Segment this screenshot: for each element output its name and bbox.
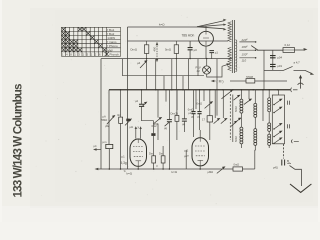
capacitor near bus x141.5 <box>139 104 144 106</box>
svg-text:µ0: µ0 <box>194 48 198 52</box>
capacitor um (box on x109) <box>106 144 113 148</box>
switch arm mains <box>283 66 293 70</box>
resistor 5m (on y41) <box>174 41 178 90</box>
wire: vertical x164 <box>163 76 165 90</box>
table crosshatch cells <box>62 27 66 31</box>
dashed gang line right <box>283 144 285 159</box>
arrowhead mains out <box>304 48 308 51</box>
svg-text:DmΩ: DmΩ <box>131 48 137 52</box>
wire: vertical x198 <box>197 59 199 76</box>
svg-text:400: 400 <box>153 46 157 51</box>
coil L2 lower <box>254 129 257 146</box>
svg-text:µ04: µ04 <box>277 55 282 59</box>
junction dots on bus <box>120 89 279 91</box>
pot lower coils <box>235 119 241 123</box>
wire: vertical x122.4 <box>121 59 123 76</box>
transformer secondary winding <box>235 40 236 72</box>
wire: vertical x204 mid drop <box>203 90 205 101</box>
wire: vertical x186.2 <box>185 150 187 169</box>
wire: vertical x217 drop <box>216 90 218 116</box>
paper speckles <box>36 15 309 204</box>
svg-text:180º: 180º <box>242 45 249 49</box>
wire: vertical x155.7 <box>155 59 157 90</box>
wire: x120.6 leads <box>120 90 122 169</box>
wire: to earth <box>290 166 302 187</box>
wire: output stage line y41 <box>128 40 229 42</box>
coil L3 mid <box>268 123 271 131</box>
wire: speaker fan line 1 <box>197 21 225 27</box>
junction dots heater line <box>146 58 207 59</box>
capacitor pair x199.5 <box>197 112 201 114</box>
svg-text:Dm: Dm <box>149 152 153 156</box>
wire: L3 leads <box>268 90 270 148</box>
wire: M line continues <box>230 80 246 82</box>
svg-text:0mΩ: 0mΩ <box>197 102 203 106</box>
wire: vertical x146.6 below heater <box>146 59 148 90</box>
wire: x215.2 x223.3 drops <box>215 90 223 118</box>
capacitor u1 at tube <box>209 51 214 53</box>
resistor 5708 <box>246 79 255 83</box>
table frame <box>62 27 121 56</box>
svg-text:133 W/143 W Columbus: 133 W/143 W Columbus <box>11 84 24 198</box>
switch arm 1 <box>274 100 281 105</box>
wire: bus left drop x109 <box>108 90 110 145</box>
wire: mains switch line <box>264 69 283 71</box>
wire: line y75.7 <box>122 75 204 77</box>
arrowhead speaker 3 <box>223 28 226 30</box>
resistor 0m (x120.6) <box>119 117 123 123</box>
svg-text:5002: 5002 <box>234 106 238 112</box>
antenna symbol <box>298 78 304 89</box>
svg-text:µ X: µ X <box>135 125 139 129</box>
svg-text:µ4: µ4 <box>137 61 141 65</box>
wire: vertical x171.8 <box>171 59 173 90</box>
dial lamp P <box>203 66 211 74</box>
wire: main chassis bus <box>109 89 290 91</box>
wire: vertical x183 <box>182 76 184 90</box>
svg-text:µ50: µ50 <box>154 122 159 126</box>
switch box small x207-212.5 <box>207 116 212 122</box>
capacitor u04 <box>270 56 276 58</box>
arrowhead mains switch out <box>310 72 314 75</box>
trimmer top coils <box>234 96 240 100</box>
svg-text:µ01: µ01 <box>277 64 282 68</box>
capacitor B trim <box>282 160 285 166</box>
wire: V2 top lead <box>199 130 201 138</box>
coil L2 upper <box>254 103 257 117</box>
switch arm 3 <box>274 124 281 129</box>
svg-text:5,3g: 5,3g <box>121 161 127 165</box>
wire: x177 leads <box>176 90 178 140</box>
capacitor u01 <box>270 64 276 66</box>
switch arm voltage selector <box>251 46 258 51</box>
svg-text:µΩ: µΩ <box>185 149 189 153</box>
rectifier tube U4 <box>199 31 214 46</box>
capacitor x169.4 <box>167 120 172 122</box>
transformer primary winding upper <box>228 22 231 42</box>
wire: mains switch out <box>294 70 313 73</box>
wire: left corner vertical x101 <box>100 59 102 115</box>
resistor DMa right of V1 <box>152 156 156 163</box>
resistor Dm1 (x177) <box>175 116 179 122</box>
arrowhead speaker 1 <box>223 19 226 21</box>
pot 0m2 (x158) <box>154 118 161 124</box>
wire: L2 bottom to ground line <box>255 150 256 169</box>
coil L1 upper <box>240 99 243 113</box>
contact at B <box>288 162 291 165</box>
capacitor pair x193.5 <box>191 112 195 114</box>
table column lines <box>66 27 107 56</box>
svg-text:µΩ: µΩ <box>130 125 133 129</box>
tube V1 <box>130 139 147 166</box>
svg-text:µ1T: µ1T <box>184 154 189 158</box>
pot 0m upper right <box>205 102 212 108</box>
wire: x109 to bottom line <box>108 149 110 169</box>
wire: mains line out <box>295 49 306 51</box>
table row lines <box>62 31 121 52</box>
wire: DMb leads <box>162 146 164 169</box>
coil L3 upper <box>268 98 271 112</box>
svg-text:µm: µm <box>103 140 108 144</box>
wire: V2 bottom lead <box>199 166 201 169</box>
wire: V1 top leads with arrows <box>136 128 141 139</box>
svg-text:a 4,7: a 4,7 <box>294 60 301 64</box>
svg-text:5mΩ: 5mΩ <box>165 48 171 52</box>
pot right x230.5 <box>231 122 236 127</box>
wire: L1 leads <box>240 90 242 148</box>
bus end contact <box>290 88 293 92</box>
switch arm 5 <box>274 138 281 143</box>
svg-text:Dm: Dm <box>159 152 163 156</box>
wire: branch vertical x264 <box>263 50 265 89</box>
wire: x158 drop <box>157 90 159 140</box>
wire: x141.5 leads <box>142 90 154 156</box>
coil L3 lower <box>268 134 271 145</box>
svg-text:k=Ω: k=Ω <box>127 171 133 175</box>
svg-text:110: 110 <box>242 58 247 62</box>
wire: bracket vertical x232.8 <box>232 95 234 143</box>
switch arm 4 <box>274 132 281 137</box>
fuse Si 0,12 <box>283 48 295 53</box>
svg-text:0mΩ: 0mΩ <box>234 163 240 167</box>
capacitor u0 (on y41) <box>188 48 193 50</box>
wire: x101 lower <box>100 115 102 170</box>
svg-text:150º: 150º <box>242 52 249 56</box>
dashed gang line mid <box>229 94 231 140</box>
transformer primary winding lower <box>228 47 231 70</box>
svg-text:µA: µA <box>103 114 107 118</box>
wire: vertical x188.4 <box>187 59 189 90</box>
svg-text:k=Ω: k=Ω <box>159 23 165 27</box>
potentiometer 5M left <box>107 117 114 125</box>
wire: mains cap branch vertical <box>272 50 274 70</box>
wire: left frame vertical <box>127 27 129 169</box>
svg-text:78S AOn: 78S AOn <box>182 34 195 38</box>
tension element 400 (dial drive) <box>156 44 158 61</box>
tube V2 <box>192 138 209 166</box>
wire: speaker fan line 2 <box>197 25 225 27</box>
band switch unit box <box>272 95 284 144</box>
wire: vertical x196 drop <box>195 90 197 109</box>
capacitor dark at V1 top right <box>151 133 155 136</box>
transformer core <box>232 20 234 73</box>
switch arm between coils <box>244 100 251 105</box>
wire: mains taps <box>239 42 255 58</box>
connector bars lower <box>288 124 290 128</box>
wire: vertical x177 drop <box>176 90 178 110</box>
connector bars upper <box>288 101 290 105</box>
pot pair b <box>221 119 226 124</box>
wire: lamp top lead <box>206 59 208 66</box>
svg-text:µ1: µ1 <box>215 50 219 54</box>
svg-text:MW: MW <box>107 48 112 52</box>
wire: M line right <box>255 80 287 82</box>
arrowhead bottom left <box>95 168 99 171</box>
trimmer u4 on heater <box>140 62 146 68</box>
wire: x193.5 x199.5 leads <box>194 90 200 137</box>
svg-text:µMΩ: µMΩ <box>208 170 214 174</box>
svg-text:5002: 5002 <box>234 136 238 142</box>
svg-text:( M ): ( M ) <box>217 80 224 84</box>
wire: speaker fan line 3 <box>197 27 225 29</box>
wire: tube top lead <box>205 26 207 32</box>
coil L1 lower <box>240 127 243 144</box>
pot crossing bus x225-234 <box>222 91 232 99</box>
earth arrow chassis <box>290 184 311 192</box>
wire: top output line <box>128 26 198 28</box>
wire: vertical x166 drop <box>165 90 167 102</box>
pot pair a <box>214 119 219 124</box>
arrowhead left terminal <box>93 148 97 151</box>
trimmer with cap right of 0m <box>126 119 130 122</box>
wire: mains line to fuse <box>257 49 283 51</box>
wire: box top to bus <box>277 90 279 95</box>
resistor Dm3 (on y41) <box>144 41 148 59</box>
switch arm bottom <box>217 168 224 174</box>
( M ) scale lamp line <box>213 80 216 82</box>
arrowhead speaker 2 <box>223 24 226 26</box>
svg-text:0,12: 0,12 <box>285 43 291 47</box>
svg-text:Phonob.: Phonob. <box>110 52 120 56</box>
capacitor x184.4 <box>182 119 187 121</box>
wire: L2 leads <box>254 90 256 150</box>
wire: bus stub after contact <box>293 89 298 91</box>
svg-text:220º: 220º <box>241 38 249 42</box>
junction dots on bottom line <box>109 168 201 170</box>
wire: lamp bottom to transformer arrow <box>207 66 222 77</box>
wire: x169.4 leads <box>168 90 170 169</box>
contact bottom right of box <box>292 140 299 144</box>
wire: vertical x217 <box>216 59 218 90</box>
svg-text:5MΩ: 5MΩ <box>102 118 108 122</box>
svg-text:k=Ω: k=Ω <box>172 170 178 174</box>
arrowhead into transformer <box>222 65 227 67</box>
resistor 0m bottom <box>233 167 243 171</box>
wire: left arrow terminal y149.5 <box>95 149 101 151</box>
wire: heater line y58.6 <box>101 58 232 60</box>
wire: vertical x249 <box>248 90 250 99</box>
wire: vertical x263 <box>262 90 264 121</box>
svg-text:µ1: µ1 <box>122 155 126 159</box>
wire: V1 bottom lead <box>137 166 139 169</box>
wire: tube bottom lead <box>205 46 207 59</box>
resistor DMb right of V1 <box>161 156 165 163</box>
svg-text:57Ω8: 57Ω8 <box>246 75 253 79</box>
wire: bottom line y169 <box>97 168 255 170</box>
wire: DMa leads <box>153 163 155 169</box>
wire: x184.4 leads <box>183 90 185 132</box>
switch arm 2 <box>274 108 281 113</box>
wire: x209.8 leads <box>209 90 211 140</box>
